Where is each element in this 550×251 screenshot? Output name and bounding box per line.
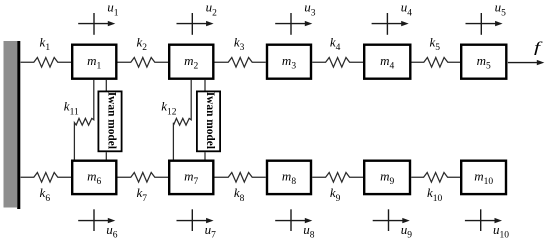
svg-text:Iwan model: Iwan model [204,92,216,149]
svg-text:Iwan model: Iwan model [106,92,118,149]
